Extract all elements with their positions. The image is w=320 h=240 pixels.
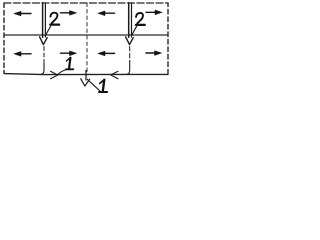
conductor 2 left vertical pair (word line) (43, 3, 46, 38)
cell (2,4) magnetization arrow (right) (146, 51, 162, 56)
label 1 (lower, tap lead) (99, 80, 107, 92)
label 1 (upper, on bottom wire) (66, 58, 73, 70)
leader from label 2 left (45, 26, 51, 36)
wire: elbow joining bottom run (right) (126, 61, 130, 75)
arrowhead of conductor 2 left (open V, down) (40, 37, 48, 45)
cell column boundary x=87 (dashed, both rows) (86, 3, 88, 73)
leader from lower label 1 (87, 79, 100, 91)
cell (2,3) magnetization arrow (left) (98, 51, 115, 56)
cell array top border (dashed) (4, 2, 168, 4)
leader from upper label 1 (58, 70, 66, 75)
cell (1,2) magnetization arrow (right) (61, 11, 77, 16)
cell (2,1) magnetization arrow (left) (14, 52, 31, 57)
label 2 (right word line) (136, 13, 145, 25)
wire: elbow joining bottom run (left) (40, 63, 44, 75)
current arrow on wire 1 (pointing right) (51, 71, 58, 78)
wire: conductor continuation lower row right (129, 47, 131, 63)
wire: conductor 1 bottom run along lower border (4, 74, 168, 75)
current arrow on wire 1 (pointing left) (111, 71, 118, 78)
cell (2,2) magnetization arrow (right) (61, 51, 77, 56)
leader from label 2 right (131, 26, 136, 36)
wire: conductor continuation lower row left (43, 47, 45, 65)
cell (1,3) magnetization arrow (left) (98, 11, 115, 16)
arrowhead of conductor 2 right (open V, down) (126, 37, 134, 45)
arrowhead of tap lead (open V, down) (81, 79, 90, 86)
cell row boundary (middle horizontal) (4, 34, 168, 36)
background (0, 0, 174, 98)
wire: conductor 1 tap lead down (85, 71, 87, 81)
cell array right border (dashed) (167, 3, 169, 74)
label 2 (left word line) (50, 13, 59, 25)
cell (1,4) magnetization arrow (right) (146, 10, 162, 15)
cell array left border (dashed) (3, 3, 5, 73)
cell (1,1) magnetization arrow (left) (14, 11, 31, 16)
conductor 2 right vertical pair (word line) (129, 3, 132, 38)
